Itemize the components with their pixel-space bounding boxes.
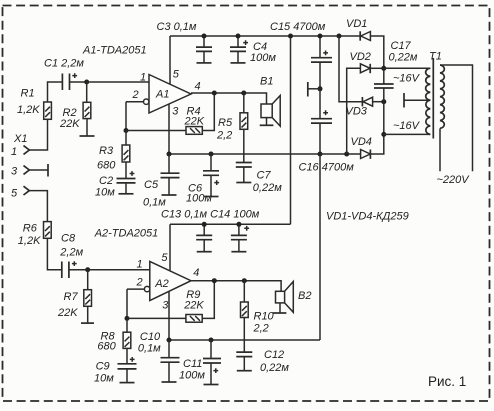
svg-text:VD2: VD2 (350, 51, 371, 63)
diode VD3 (346, 97, 384, 118)
wire primary bottom (439, 128, 441, 171)
ground C6 (204, 196, 219, 198)
svg-text:100м: 100м (186, 193, 212, 205)
node pin3 C10 (167, 338, 172, 343)
node secondary bottom join (381, 132, 386, 137)
capacitor C7 0,22m (236, 163, 282, 195)
svg-text:A1: A1 (155, 89, 169, 101)
wire pin2 node drop (125, 102, 127, 131)
svg-text:0,22м: 0,22м (253, 182, 282, 194)
wire A2 pin3 drop (168, 291, 170, 340)
wire VD2 branch (347, 68, 361, 154)
svg-text:0,1м: 0,1м (138, 343, 161, 355)
ground C11 (204, 384, 219, 386)
svg-text:C3 0,1м: C3 0,1м (157, 21, 197, 33)
svg-text:Рис. 1: Рис. 1 (428, 374, 466, 389)
capacitor C8 2,2m (59, 233, 83, 279)
ground C7 (236, 182, 251, 184)
svg-text:22K: 22K (59, 118, 80, 130)
svg-text:0,22м: 0,22м (389, 52, 418, 64)
ground B2 (273, 312, 287, 314)
svg-text:0,22м: 0,22м (260, 362, 289, 374)
resistor R8 680 (97, 318, 130, 363)
wire A2 output (191, 281, 281, 292)
svg-text:~16V: ~16V (393, 120, 421, 132)
svg-text:VD4: VD4 (351, 136, 372, 148)
svg-text:22K: 22K (183, 300, 204, 312)
svg-text:B2: B2 (298, 290, 311, 302)
svg-text:VD1-VD4-КД259: VD1-VD4-КД259 (326, 211, 409, 223)
wire pin2 node drop (126, 289, 128, 318)
resistor R6 1,2K (18, 222, 51, 247)
node rail C4 (236, 34, 241, 39)
resistor R10 2,2 (241, 281, 275, 352)
wire A1 output (191, 93, 267, 104)
svg-text:C12: C12 (264, 349, 284, 361)
wire feedback to R9 (127, 317, 186, 319)
svg-text:4: 4 (193, 267, 199, 279)
capacitor C5 0,1m (143, 154, 180, 209)
wire feedback to R4 (126, 130, 186, 132)
svg-text:5: 5 (173, 69, 180, 81)
node C1/R2 junction (84, 80, 89, 85)
svg-text:C9: C9 (96, 361, 110, 373)
wire node to A2 pin1 (88, 269, 150, 271)
node end A (381, 66, 386, 71)
svg-text:1,2K: 1,2K (18, 235, 41, 247)
node VD2 anode (344, 152, 349, 157)
capacitor C11 100m (179, 340, 221, 385)
svg-text:2: 2 (132, 89, 139, 101)
node rail +V drop (288, 34, 293, 39)
ground C13 (197, 251, 212, 253)
capacitor C15 4700m (270, 21, 332, 89)
wire +V rail channel2 (170, 223, 291, 225)
svg-text:10м: 10м (95, 187, 115, 199)
capacitor C13 0,1m (196, 224, 212, 251)
ground C12 (237, 370, 252, 372)
svg-text:2,2: 2,2 (216, 130, 232, 142)
svg-text:A2: A2 (154, 278, 168, 290)
resistor R9 22K (183, 289, 204, 322)
speaker B2 (276, 282, 312, 314)
svg-text:C15 4700м: C15 4700м (270, 21, 326, 33)
svg-text:2,2: 2,2 (253, 323, 269, 335)
svg-text:R5: R5 (218, 117, 233, 129)
node rail C11 (209, 338, 214, 343)
resistor R4 22K (184, 106, 205, 135)
wire R4 to output (202, 93, 214, 131)
op-amp A2 (94, 228, 200, 312)
svg-text:4: 4 (195, 81, 201, 93)
wire A1 pin5 to +rail (169, 36, 171, 84)
wire pin1 to R1 (29, 119, 47, 150)
node rail C6 (209, 152, 214, 157)
node rail C3 (202, 34, 207, 39)
transformer T1 (426, 51, 445, 139)
svg-text:3: 3 (162, 300, 169, 312)
node A2 feedback junction (125, 316, 130, 321)
resistor R2 22K (59, 82, 91, 136)
svg-text:~220V: ~220V (437, 174, 471, 186)
ground R2 (80, 135, 95, 137)
svg-text:VD1: VD1 (346, 18, 367, 30)
node output R4 (212, 91, 217, 96)
svg-text:C17: C17 (391, 40, 412, 52)
node rail VD3 branch (337, 34, 342, 39)
diode VD1 (346, 18, 384, 68)
diode VD4 (351, 134, 384, 159)
ground C14 (231, 251, 246, 253)
svg-text:1: 1 (137, 259, 143, 271)
svg-text:A1-TDA2051: A1-TDA2051 (82, 45, 147, 57)
ground C9 (120, 382, 135, 384)
svg-text:680: 680 (97, 160, 116, 172)
wire pin5 to R6 (29, 191, 47, 222)
svg-text:C5: C5 (144, 179, 159, 191)
resistor R5 2,2 (216, 93, 248, 163)
X1 pin 3 (11, 166, 29, 178)
X1 pin 1 (11, 146, 29, 158)
svg-text:2,2м: 2,2м (59, 247, 83, 259)
wire R6 to C8 (47, 238, 61, 269)
svg-text:T1: T1 (429, 51, 442, 63)
svg-text:1,2K: 1,2K (17, 104, 40, 116)
svg-text:C1 2,2м: C1 2,2м (44, 58, 84, 70)
svg-text:100м: 100м (179, 370, 205, 382)
A1 pin2 inverting input circle (126, 99, 149, 104)
capacitor C12 0,22m (236, 349, 289, 374)
ground R7 (81, 322, 94, 324)
wire +V rail top (170, 35, 360, 37)
svg-text:1: 1 (140, 72, 146, 84)
ground stub midpoint (308, 82, 320, 97)
capacitor C14 100m (231, 224, 249, 251)
wire primary top (440, 65, 473, 171)
svg-text:3: 3 (11, 166, 18, 178)
node output R5 (241, 91, 246, 96)
wire C8 to node (69, 269, 88, 271)
ground C4 (231, 62, 246, 64)
wire VD3 branch (339, 36, 362, 102)
wire R1 to C1 (48, 82, 63, 102)
resistor R7 22K (57, 270, 92, 323)
wire end B drop (383, 102, 385, 135)
node end B (381, 99, 386, 104)
svg-text:~16V: ~16V (393, 73, 421, 85)
wire R9 to output (202, 281, 214, 319)
center tap stub with ground bar (404, 93, 430, 108)
svg-text:R10: R10 (254, 311, 275, 323)
capacitor C1 2,2m (44, 58, 84, 91)
X1 pin 5 (11, 186, 29, 199)
svg-text:C10: C10 (140, 331, 161, 343)
capacitor C2 10m (95, 171, 136, 198)
svg-text:1: 1 (11, 146, 17, 158)
svg-text:C13 0,1м C14 100м: C13 0,1м C14 100м (161, 209, 260, 221)
wire node to A1 pin1 (87, 81, 149, 83)
svg-text:5: 5 (161, 252, 168, 264)
wire -V to VD4 (320, 153, 361, 155)
svg-text:22K: 22K (184, 116, 205, 128)
X1 pin3 ground stub (29, 164, 48, 177)
svg-text:C8: C8 (61, 233, 76, 245)
capacitor C3 0,1m (157, 21, 213, 63)
node C15 C16 midpoint (318, 86, 323, 91)
svg-text:R6: R6 (23, 223, 38, 235)
svg-text:C2: C2 (99, 175, 113, 187)
ground C10 (162, 381, 177, 383)
svg-text:C11: C11 (183, 358, 202, 370)
node output R10 (242, 278, 247, 283)
connector X1 (13, 133, 27, 145)
wire end B to secondary (384, 133, 431, 135)
ground C5 (162, 194, 177, 196)
svg-text:B1: B1 (260, 76, 273, 88)
speaker B1 (260, 76, 280, 127)
node rail C14 (236, 222, 241, 227)
resistor R1 1.2K (17, 88, 51, 120)
node -V C16 (318, 152, 323, 157)
capacitor C17 0,22m (374, 40, 418, 102)
svg-text:R7: R7 (64, 291, 79, 303)
capacitor C6 100m (186, 154, 219, 205)
node rail C15 (318, 34, 323, 39)
svg-text:X1: X1 (13, 133, 27, 145)
node pin3 C5 (167, 152, 172, 157)
wire -V rail channel1 (169, 153, 320, 155)
ground C3 (197, 62, 212, 64)
svg-text:5: 5 (11, 188, 18, 200)
wire C1 to node (70, 81, 87, 83)
diode VD2 (350, 51, 384, 73)
svg-text:22K: 22K (57, 307, 78, 319)
svg-text:0,1м: 0,1м (143, 197, 166, 209)
wire A1 pin3 drop (168, 104, 170, 154)
node output R9 (212, 278, 217, 283)
capacitor C4 100m (230, 36, 276, 64)
svg-text:C16 4700м: C16 4700м (299, 162, 355, 174)
node A1 feedback junction (124, 128, 129, 133)
op-amp A1 (82, 45, 201, 118)
capacitor C9 10m (94, 357, 137, 385)
svg-text:R1: R1 (21, 88, 35, 100)
node rail C13 (202, 222, 207, 227)
resistor R3 680 (97, 131, 130, 179)
A2 pin2 inverting input circle (127, 286, 150, 291)
wire +V drop to channel2 (290, 36, 292, 224)
svg-text:3: 3 (172, 106, 179, 118)
wire -V rail channel2 (169, 339, 320, 341)
capacitor C16 4700m (299, 89, 355, 174)
wire -V drop to channel2 (319, 154, 321, 340)
svg-text:680: 680 (97, 341, 116, 353)
svg-text:2: 2 (136, 277, 143, 289)
node C8/R7 junction (85, 267, 90, 272)
svg-text:10м: 10м (94, 373, 114, 385)
ground C2 (119, 193, 134, 195)
svg-text:R3: R3 (99, 145, 114, 157)
ground B1 (260, 124, 274, 126)
svg-text:VD3: VD3 (346, 106, 368, 118)
svg-text:100м: 100м (250, 52, 276, 64)
wire end A to secondary (384, 67, 431, 69)
svg-text:C7: C7 (257, 170, 272, 182)
svg-text:A2-TDA2051: A2-TDA2051 (94, 228, 159, 240)
wire A2 pin5 to rail (169, 224, 171, 271)
capacitor C10 0,1m (138, 331, 180, 382)
